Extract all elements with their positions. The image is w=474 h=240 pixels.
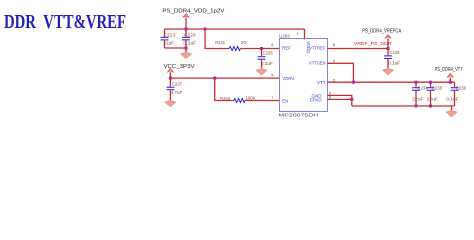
- wire VDD rail: [165, 28, 305, 30]
- svg-text:0.1uF: 0.1uF: [388, 61, 400, 66]
- wire R221 drop: [205, 29, 229, 49]
- svg-text:20: 20: [241, 40, 247, 45]
- svg-text:VDDQ: VDDQ: [306, 41, 311, 53]
- node junction C234 top: [415, 81, 418, 84]
- svg-text:8: 8: [333, 42, 335, 47]
- power symbol PS_DDR4_VTT: [447, 73, 453, 82]
- svg-text:0.1uF: 0.1uF: [446, 97, 458, 102]
- svg-text:4.7uF: 4.7uF: [171, 90, 183, 95]
- svg-text:C224: C224: [184, 32, 196, 37]
- node junction VCC/R226 drop: [213, 77, 216, 80]
- node junction VTTREF/C229: [387, 47, 390, 50]
- svg-text:REF: REF: [282, 45, 291, 50]
- wire VTTREF net: [327, 48, 388, 50]
- svg-text:C236: C236: [456, 86, 467, 91]
- node junction C235 top: [429, 81, 432, 84]
- svg-text:DDR VTT&VREF: DDR VTT&VREF: [4, 11, 126, 33]
- svg-text:R221: R221: [215, 40, 225, 45]
- svg-text:4: 4: [333, 58, 336, 63]
- resistor R226: [220, 96, 255, 103]
- resistor R221: [215, 40, 247, 50]
- svg-text:C237: C237: [172, 81, 183, 86]
- power symbol VCC_3P3V: [167, 68, 173, 78]
- node junction VCC/C237: [169, 77, 172, 80]
- ground GND arrow C237: [165, 100, 176, 106]
- wire R221 to REF: [240, 48, 280, 50]
- capacitor C224: [182, 29, 197, 48]
- wire bottom rail: [352, 105, 455, 107]
- power symbol PS_DDR4_VDD_1p2V: [183, 14, 189, 29]
- node junction cap bottom: [185, 47, 188, 50]
- svg-text:PS_DDR4_VREFCA: PS_DDR4_VREFCA: [362, 29, 402, 35]
- ground GND arrow C229: [382, 68, 393, 74]
- wire cap bottoms: [165, 48, 187, 53]
- svg-text:EN: EN: [282, 98, 288, 103]
- ground GND arrow left caps: [180, 52, 191, 58]
- svg-text:1: 1: [297, 31, 299, 36]
- capacitor C236: [446, 82, 466, 106]
- node junction VDD/R221 drop: [204, 28, 207, 31]
- svg-text:22uF: 22uF: [163, 40, 174, 45]
- capacitor C223: [161, 29, 177, 48]
- node junction C235 bottom: [429, 105, 432, 108]
- svg-text:C235: C235: [432, 86, 443, 91]
- op-amp U203 regulator box: [278, 33, 327, 117]
- wire R226 drop: [215, 78, 234, 100]
- svg-text:6: 6: [271, 42, 273, 47]
- ground GND arrow VTT bank: [446, 106, 457, 117]
- node junction EPAD: [350, 98, 353, 101]
- power symbol PS_DDR4_VREFCA: [385, 34, 391, 48]
- capacitor C229: [384, 49, 401, 69]
- svg-text:VDRV: VDRV: [282, 76, 295, 81]
- node junction VTTSEN/VTT: [352, 81, 355, 84]
- svg-text:C223: C223: [164, 32, 176, 37]
- svg-text:MP20075DH: MP20075DH: [278, 112, 318, 117]
- svg-text:7: 7: [271, 95, 273, 100]
- capacitor C237: [167, 78, 183, 100]
- svg-text:5: 5: [271, 72, 273, 77]
- node junction VDD/power: [185, 28, 188, 31]
- svg-text:22uF: 22uF: [412, 97, 424, 102]
- wire VCC to VDRV: [170, 77, 280, 79]
- svg-text:PS_DDR4_VDD_1p2V: PS_DDR4_VDD_1p2V: [162, 9, 225, 15]
- capacitor C234: [412, 82, 428, 106]
- wire VTTSEN hook: [327, 63, 353, 82]
- svg-text:VCC_3P3V: VCC_3P3V: [164, 64, 196, 70]
- svg-text:VTT: VTT: [317, 80, 326, 85]
- node junction C234 bottom: [415, 105, 418, 108]
- svg-text:C229: C229: [389, 50, 400, 55]
- wire VTT rail: [327, 81, 454, 83]
- svg-text:U203: U203: [279, 33, 290, 38]
- svg-text:VTTSEN: VTTSEN: [309, 61, 326, 66]
- capacitor C228: [258, 49, 274, 69]
- svg-text:0.1uF: 0.1uF: [261, 61, 273, 66]
- svg-text:22uF: 22uF: [427, 97, 439, 102]
- svg-text:VREF_PS_DDR: VREF_PS_DDR: [354, 41, 393, 46]
- wire pin1 drop: [304, 29, 306, 40]
- svg-text:C228: C228: [263, 50, 274, 55]
- capacitor C235: [427, 82, 443, 106]
- svg-text:R226: R226: [220, 96, 230, 101]
- svg-text:EPAD: EPAD: [310, 97, 322, 102]
- node junction C228: [260, 47, 263, 50]
- svg-text:0.1uF: 0.1uF: [183, 40, 196, 45]
- node junction VTT/power: [449, 81, 452, 84]
- ground GND arrow C228: [256, 69, 267, 75]
- wire GND EPAD join: [327, 95, 352, 106]
- svg-text:PS_DDR4_VTT: PS_DDR4_VTT: [435, 67, 463, 73]
- wire R226 to EN: [245, 100, 280, 102]
